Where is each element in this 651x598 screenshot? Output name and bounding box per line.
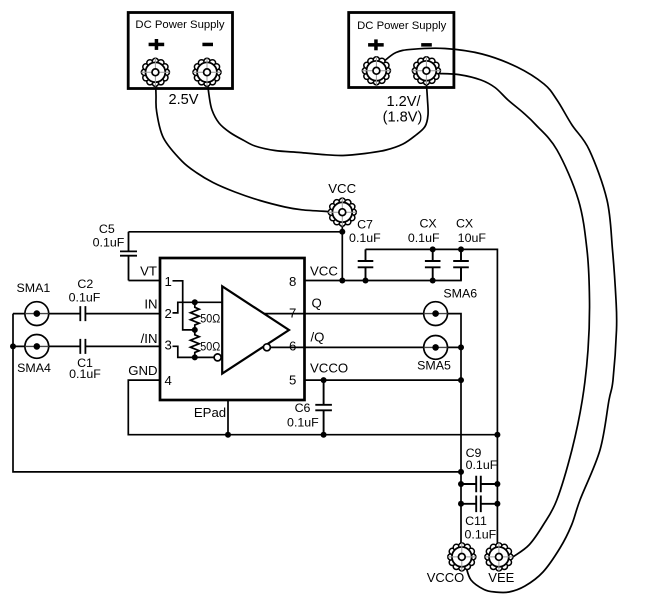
capacitor C9 [461,446,498,493]
svg-text:CX: CX [419,217,436,231]
junction VCC node [339,229,345,235]
SMA6 connector [424,287,478,326]
junction /Q at VCCO line [458,344,464,350]
capacitor C5 [93,222,137,280]
junction C9 right [494,481,500,487]
PS2 plus sign [368,39,384,50]
junction C7 bottom [363,278,369,284]
capacitor CX 10uF [453,217,486,281]
capacitor C7 [349,217,381,280]
svg-text:VCC: VCC [328,181,356,196]
svg-text:1.2V/: 1.2V/ [386,94,421,110]
svg-text:4: 4 [165,373,172,388]
junction VCCO row at VCCO line [458,377,464,383]
svg-text:IN: IN [144,297,157,312]
PS2 minus terminal [412,57,440,85]
svg-text:VCC: VCC [310,264,338,279]
svg-text:0.1uF: 0.1uF [93,236,125,250]
pin 1 internal wire [173,281,195,330]
wire GND pin and ground rail [128,380,497,435]
svg-text:VT: VT [140,264,157,279]
svg-text:0.1uF: 0.1uF [349,231,381,245]
junction C11 right [494,501,500,507]
PS1 plus sign [149,39,165,50]
svg-text:VCCO: VCCO [310,360,348,375]
SMA1 connector [17,281,51,326]
svg-text:0.1uF: 0.1uF [287,416,319,430]
junction R1-R2 midpoint [192,327,198,333]
VCC binding post [328,198,356,226]
svg-text:CX: CX [456,217,473,231]
EPad stub [227,400,229,435]
junction VCC rail at down-wire [339,278,345,284]
wire VCC rail pin 8 [305,267,462,280]
svg-text:GND: GND [128,363,157,378]
PS1 minus sign [202,43,213,47]
junction CX1 bottom [430,278,436,284]
svg-text:0.1uF: 0.1uF [69,367,101,381]
svg-text:3: 3 [165,337,172,352]
SMA4 connector [17,335,51,375]
svg-text:C2: C2 [77,277,93,291]
svg-text:0.1uF: 0.1uF [465,527,497,541]
pin 3 internal wire [173,346,215,357]
PS2 minus sign [421,43,432,47]
svg-text:Q: Q [312,296,322,311]
svg-text:SMA5: SMA5 [417,359,451,373]
wire /IN row [13,345,160,347]
junction EPad on ground rail [225,432,231,438]
wire /Q to SMA5 [305,346,462,348]
node VCC wiring [129,219,343,281]
junction C6 bottom on ground rail [321,432,327,438]
wire VCCO pin 5 [305,379,462,381]
wire IN row [13,313,160,315]
svg-text:0.1uF: 0.1uF [408,231,440,245]
svg-text:/Q: /Q [311,329,325,344]
junction C9 left [458,481,464,487]
PS1 minus terminal [193,58,221,86]
pin 2 internal wire [173,302,223,313]
junction shield rail to VCCO line [458,469,464,475]
PS2 plus terminal [362,57,390,85]
wire bypass top rail to VEE line [366,249,498,549]
junction SMA4 tee [10,343,16,349]
capacitor C11 [461,496,497,542]
svg-text:C7: C7 [357,217,373,231]
junction VCCO pin at C6 [321,377,327,383]
wire Q to SMA6 and VCCO line [305,314,462,549]
svg-text:C11: C11 [465,514,487,528]
inverting input bubble [214,354,221,361]
svg-text:DC Power Supply: DC Power Supply [357,20,447,32]
svg-text:DC Power Supply: DC Power Supply [135,19,225,31]
svg-text:8: 8 [289,274,296,289]
wire PS2 minus to VEE post (inner arc) [438,74,590,557]
svg-text:0.1uF: 0.1uF [69,290,101,304]
wire PS2 plus to VCCO post (outer arc) [383,48,617,592]
junction CX1 top [430,246,436,252]
capacitor CX 0.1uF [408,217,441,281]
IC U1 body [160,258,305,400]
svg-text:1: 1 [165,274,172,289]
svg-text:0.1uF: 0.1uF [466,458,498,472]
resistor R1 50ohm [190,302,199,330]
svg-text:VEE: VEE [488,570,514,585]
wire /Q output inside IC [271,346,305,348]
SMA5 connector [417,336,451,373]
junction R1 top [192,299,198,305]
VEE binding post [485,543,513,571]
inverted output bubble [263,344,270,351]
junction C11 left [458,501,464,507]
junction CX2 top [458,246,464,252]
svg-text:50Ω: 50Ω [200,339,220,353]
svg-text:EPad: EPad [194,405,226,420]
resistor R2 50ohm [190,330,199,358]
svg-text:(1.8V): (1.8V) [383,110,423,126]
svg-text:C6: C6 [295,401,311,415]
wire Q output inside IC [264,313,305,315]
junction R2 bottom [192,354,198,360]
svg-text:6: 6 [289,338,296,353]
buffer amplifier triangle [222,286,289,373]
svg-text:SMA4: SMA4 [17,361,51,375]
capacitor C1 [69,339,101,381]
svg-text:2.5V: 2.5V [168,92,198,108]
svg-text:SMA6: SMA6 [443,287,477,301]
svg-text:C5: C5 [99,222,115,236]
junction ground rail at VEE line [494,432,500,438]
svg-text:VCCO: VCCO [427,570,465,585]
DC power supply PS2 box [349,13,454,88]
wire VT pin [129,280,161,282]
svg-text:/IN: /IN [141,331,158,346]
wire PS1 plus to VCC post [156,76,330,212]
DC power supply PS1 box [128,13,232,89]
capacitor C6 [287,380,332,435]
wire SMA shield rail [13,314,461,472]
VCCO binding post [448,543,476,571]
PS1 plus terminal [141,58,169,86]
svg-text:10uF: 10uF [458,231,487,245]
svg-text:50Ω: 50Ω [200,312,220,326]
capacitor C2 [69,277,101,321]
svg-text:5: 5 [289,373,296,388]
svg-text:SMA1: SMA1 [17,281,51,295]
wire PS1 minus to PS2 minus [207,78,428,156]
svg-text:2: 2 [165,306,172,321]
